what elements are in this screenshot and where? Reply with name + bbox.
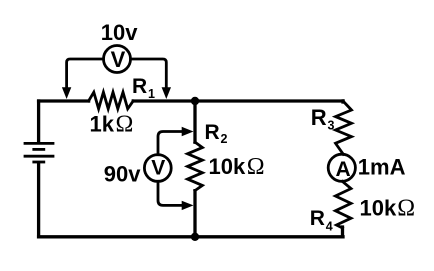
node junction bottom of R2 branch [191,233,199,241]
resistor R1 [89,92,134,109]
svg-text:2: 2 [221,132,228,146]
voltmeter V1 lead left with arrow [67,59,104,87]
wire top horizontal [39,99,343,102]
svg-text:V: V [111,47,126,72]
svg-text:10v: 10v [101,20,138,45]
voltmeter V2 lead top with arrow [158,132,182,155]
wire left vertical (battery to bottom) [37,163,40,237]
svg-text:10kΩ: 10kΩ [360,196,416,222]
wire middle branch vertical [193,101,196,237]
svg-text:4: 4 [326,220,333,234]
wire bottom horizontal [39,235,343,238]
svg-text:1kΩ: 1kΩ [90,112,134,138]
resistor R3 [336,101,352,154]
svg-text:90v: 90v [104,162,141,187]
svg-text:V: V [151,157,165,180]
wire right branch top stub [341,101,344,102]
svg-text:R: R [205,121,220,144]
svg-text:1: 1 [148,87,155,101]
svg-text:10kΩ: 10kΩ [209,154,265,180]
voltmeter V2 lead bottom with arrow [158,181,182,205]
ammeter A1 circle [328,154,355,181]
battery B1 [25,143,53,162]
resistor R4 [335,181,351,228]
svg-text:1mA: 1mA [358,155,406,180]
wire right branch bottom stub [341,227,344,237]
svg-text:R: R [311,105,327,130]
svg-text:3: 3 [328,119,335,133]
svg-text:R: R [310,207,325,230]
node junction top of R2 branch [191,97,199,105]
svg-text:R: R [132,75,147,98]
wire left vertical (to battery) [37,101,40,142]
voltmeter V2 circle [144,155,171,182]
voltmeter V1 circle [104,46,131,73]
svg-text:A: A [336,158,351,181]
voltmeter V1 lead right with arrow [131,59,167,87]
resistor R2 [188,142,203,190]
